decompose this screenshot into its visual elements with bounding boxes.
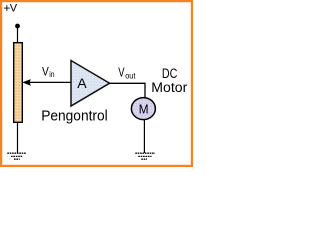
svg-text:in: in: [49, 70, 54, 79]
wire Vout from amplifier apex to motor: [110, 83, 145, 97]
svg-text:Pengontrol: Pengontrol: [41, 107, 108, 124]
wire Vin from amplifier to wiper: [29, 81, 71, 83]
svg-text:out: out: [125, 71, 136, 80]
svg-text:M: M: [139, 102, 149, 117]
border frame: [1, 1, 192, 166]
ground (right): [135, 153, 155, 159]
ground (left): [7, 153, 26, 159]
wiper arrow into potentiometer: [22, 79, 31, 86]
node +V terminal dot: [15, 24, 20, 29]
wire from potentiometer bottom to ground: [17, 123, 19, 153]
motor M1 body: [131, 98, 155, 120]
op-amp A (controller amplifier): [71, 61, 110, 107]
wire from +V dot to potentiometer top: [17, 28, 19, 43]
svg-text:V: V: [10, 3, 18, 15]
svg-text:A: A: [77, 76, 87, 91]
wire from motor bottom to ground: [143, 120, 145, 154]
potentiometer R1 body: [14, 43, 23, 123]
svg-text:DC: DC: [162, 66, 178, 81]
svg-text:V: V: [118, 65, 125, 79]
svg-text:V: V: [42, 65, 49, 79]
svg-text:Motor: Motor: [151, 80, 188, 95]
